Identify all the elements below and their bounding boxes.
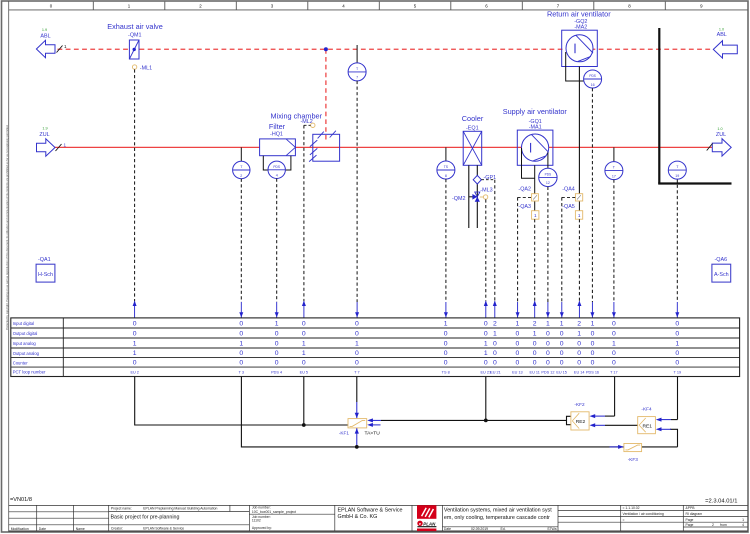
svg-text:PDS: PDS [589, 74, 596, 78]
svg-text:T 7: T 7 [354, 370, 359, 374]
wire T17 to RE2 upper [590, 377, 615, 419]
svg-text:1: 1 [64, 44, 67, 49]
svg-text:Job number:: Job number: [252, 506, 271, 510]
svg-text:0: 0 [50, 3, 53, 8]
title block plant description [444, 508, 552, 521]
svg-text:0: 0 [560, 350, 564, 357]
svg-text:0: 0 [612, 360, 616, 367]
svg-text:0: 0 [493, 340, 497, 347]
svg-text:0: 0 [516, 350, 520, 357]
contact QA5 [562, 204, 582, 219]
svg-text:7: 7 [557, 3, 560, 8]
svg-text:0: 0 [239, 360, 243, 367]
measuring line QA3 (EU 11) [533, 219, 537, 317]
table values column PDS 4 [275, 320, 279, 366]
wire RE1 lower to bottom run [656, 427, 678, 447]
title block company [338, 507, 403, 519]
svg-text:1: 1 [128, 3, 131, 8]
fan GQ2 MA2 return air ventilator [547, 10, 611, 67]
svg-text:0: 0 [355, 360, 359, 367]
svg-text:TS 8: TS 8 [442, 370, 450, 374]
svg-text:EU 13: EU 13 [512, 370, 523, 374]
wire supply air duct (red) [55, 146, 712, 148]
svg-text:4: 4 [276, 174, 278, 178]
node junction EU21/RE2 wire [484, 419, 488, 423]
pump GP1 [473, 175, 496, 184]
table values column PDS 16 [591, 320, 595, 366]
svg-text:0: 0 [302, 330, 306, 337]
svg-text:-QA5: -QA5 [562, 204, 575, 210]
svg-text:2: 2 [712, 523, 714, 527]
svg-text:1: 1 [675, 340, 679, 347]
table values column PDS 12 [546, 320, 550, 366]
svg-text:ABL: ABL [40, 34, 50, 40]
svg-text:EU 21: EU 21 [490, 370, 501, 374]
wire RE1 to RE2 lower [590, 423, 638, 427]
fan GQ1 MA1 supply air ventilator [503, 107, 568, 165]
svg-text:0: 0 [675, 360, 679, 367]
svg-text:STWa: STWa [547, 527, 556, 531]
svg-text:0: 0 [516, 340, 520, 347]
svg-text:T 3: T 3 [239, 370, 244, 374]
svg-text:1: 1 [275, 320, 279, 327]
wire KF1 bottom stub [355, 428, 359, 447]
svg-text:1: 1 [133, 340, 137, 347]
svg-text:1: 1 [302, 350, 306, 357]
svg-text:TA>TU: TA>TU [365, 431, 381, 437]
actuator port ML1 [132, 65, 152, 72]
svg-text:0: 0 [275, 340, 279, 347]
svg-text:EU 5: EU 5 [300, 370, 308, 374]
svg-text:0: 0 [533, 350, 537, 357]
svg-text:-MA1: -MA1 [529, 124, 542, 130]
sensor PDS16 [584, 70, 602, 88]
pipe cooler flow [468, 165, 470, 228]
wire bus EU5 drop [303, 377, 305, 426]
svg-text:EPLAN Software & Service: EPLAN Software & Service [338, 507, 403, 513]
svg-text:0: 0 [675, 350, 679, 357]
svg-text:7: 7 [356, 76, 358, 80]
wire bus EU21 drop [485, 377, 487, 421]
svg-text:0: 0 [533, 340, 537, 347]
sensor T2 [233, 147, 250, 178]
measuring line TS8 (TS 8) [444, 179, 448, 318]
svg-text:0: 0 [493, 350, 497, 357]
table row labels [13, 321, 46, 374]
svg-text:1: 1 [560, 320, 564, 327]
measuring line QA5 (EU 14) [577, 219, 581, 317]
logic element KF1 TA>TU [339, 419, 380, 437]
svg-text:EU 2: EU 2 [130, 370, 138, 374]
svg-text:-KF2: -KF2 [574, 402, 585, 407]
svg-text:&PPB: &PPB [686, 506, 696, 510]
svg-text:EU 11: EU 11 [530, 370, 540, 374]
svg-text:-QM2: -QM2 [452, 196, 465, 202]
svg-text:0: 0 [444, 330, 448, 337]
svg-text:0: 0 [516, 360, 520, 367]
svg-text:0: 0 [444, 340, 448, 347]
PCT signal table [11, 318, 740, 377]
switch QA6 auto [712, 257, 731, 282]
wire KF1 to RE2 [367, 418, 566, 422]
svg-text:PCT loop number: PCT loop number [13, 370, 46, 375]
svg-text:0: 0 [484, 360, 488, 367]
svg-text:=VN01/8: =VN01/8 [10, 497, 32, 503]
filter HQ1 [260, 122, 296, 156]
frame column numbers [50, 3, 703, 8]
svg-text:0: 0 [533, 360, 537, 367]
svg-text:Name: Name [76, 527, 85, 531]
svg-text:Ed.: Ed. [501, 527, 506, 531]
wire KF1 lower input stub [367, 423, 380, 427]
svg-text:1: 1 [577, 330, 581, 337]
svg-text:1.9: 1.9 [42, 28, 47, 32]
svg-text:0: 0 [275, 330, 279, 337]
table values column EU 2 [133, 320, 137, 366]
measuring line T7 (T 7) [355, 81, 359, 318]
svg-text:1: 1 [302, 340, 306, 347]
svg-text:1: 1 [546, 320, 550, 327]
svg-text:PDS: PDS [273, 165, 280, 169]
sensor T17 [605, 147, 623, 179]
svg-text:2: 2 [240, 174, 242, 178]
svg-text:Date: Date [39, 527, 46, 531]
duct line fresh air (thick) [658, 28, 731, 184]
node junction EU5/KF1 wire [302, 423, 306, 427]
table values column T 3 [239, 320, 243, 366]
svg-text:0: 0 [275, 350, 279, 357]
svg-text:Creator:: Creator: [111, 527, 123, 531]
svg-text:-ML1: -ML1 [140, 66, 152, 72]
measuring line T2 (T 3) [239, 179, 243, 318]
svg-text:8: 8 [628, 3, 631, 8]
svg-text:Ventilation systems, mixed air: Ventilation systems, mixed air ventilati… [444, 508, 552, 514]
svg-text:0: 0 [591, 330, 595, 337]
svg-text:Mixing chamber: Mixing chamber [271, 112, 323, 121]
svg-text:4: 4 [342, 3, 345, 8]
svg-text:Output digital: Output digital [13, 331, 38, 336]
svg-text:1: 1 [355, 340, 359, 347]
svg-text:0: 0 [133, 360, 137, 367]
svg-text:from: from [720, 523, 727, 527]
svg-text:0: 0 [560, 340, 564, 347]
svg-text:0: 0 [577, 340, 581, 347]
switch QA1 manual [36, 257, 55, 282]
svg-text:4: 4 [742, 523, 744, 527]
svg-text:1: 1 [591, 320, 595, 327]
measuring line T17 (T 17) [612, 180, 616, 318]
svg-text:-QA3: -QA3 [518, 204, 531, 210]
svg-text:0: 0 [355, 350, 359, 357]
svg-text:1: 1 [444, 320, 448, 327]
svg-text:0: 0 [612, 330, 616, 337]
svg-text:0: 0 [577, 360, 581, 367]
svg-text:0: 0 [239, 330, 243, 337]
svg-text:0: 0 [133, 320, 137, 327]
table values column EU 5 [302, 320, 306, 366]
title block frame [9, 505, 748, 531]
table values column T 7 [355, 320, 359, 366]
measuring line PDS16 (PDS 16) [590, 88, 594, 317]
svg-text:12: 12 [546, 181, 550, 185]
svg-text:-KF3: -KF3 [628, 457, 639, 462]
measuring line ML1 (EU 2) [133, 69, 137, 317]
svg-text:em, only cooling, temperature: em, only cooling, temperature cascade co… [444, 515, 550, 521]
measuring line PDS4 (PDS 4) [275, 179, 279, 318]
measuring line PDS12 (PDS 12) [546, 187, 550, 318]
svg-text:-EQ1: -EQ1 [466, 126, 479, 132]
svg-text:0: 0 [239, 320, 243, 327]
controller KF4 RE1 [638, 407, 656, 434]
svg-text:PDS 16: PDS 16 [586, 370, 599, 374]
wire bus EU2 to KF1 [135, 377, 348, 426]
measuring line QA2 (EU 13) [516, 197, 532, 317]
cooler EQ1 [462, 114, 484, 165]
svg-text:Input analog: Input analog [13, 341, 37, 346]
sensor PDS4 (filter differential pressure) [263, 156, 291, 179]
EPLAN logo [417, 505, 436, 531]
svg-text:H-Sch: H-Sch [38, 272, 53, 278]
svg-text:0: 0 [302, 320, 306, 327]
svg-text:0: 0 [612, 320, 616, 327]
svg-text:0: 0 [516, 330, 520, 337]
svg-text:Basic project for pre-planning: Basic project for pre-planning [111, 514, 180, 520]
svg-text:1: 1 [612, 340, 616, 347]
svg-text:0: 0 [444, 360, 448, 367]
duct arrow ABL left [36, 28, 67, 58]
contact QA2 [518, 187, 538, 202]
table values column TS 8 [444, 320, 448, 366]
duct arrow ZUL right [707, 127, 732, 156]
wire T7 to KF1 top [355, 377, 359, 419]
svg-text:9: 9 [700, 3, 703, 8]
actuator port ML3 [480, 188, 493, 200]
valve QM1 exhaust air valve [107, 22, 163, 59]
svg-text:ABL: ABL [717, 32, 727, 38]
svg-text:=2.3.04.01/1: =2.3.04.01/1 [705, 499, 737, 505]
contact QA4 [562, 187, 582, 202]
svg-text:1: 1 [578, 213, 581, 218]
svg-text:2: 2 [533, 320, 537, 327]
svg-text:Supply air ventilator: Supply air ventilator [503, 107, 568, 116]
wire bus T3 to bottom run [241, 377, 677, 447]
wire fan GQ2 motor [566, 52, 584, 211]
svg-text:10C_box001_sample_project: 10C_box001_sample_project [252, 510, 296, 514]
svg-text:Approved by:: Approved by: [252, 526, 272, 530]
svg-text:Input digital: Input digital [13, 321, 34, 326]
svg-text:Counter: Counter [13, 360, 29, 365]
svg-text:1.9: 1.9 [42, 127, 47, 131]
svg-text:1: 1 [516, 320, 520, 327]
svg-text:Project name:: Project name: [111, 506, 132, 510]
svg-text:-QA1: -QA1 [38, 257, 51, 263]
svg-text:-QA4: -QA4 [562, 187, 575, 193]
svg-text:PDS 12: PDS 12 [541, 370, 554, 374]
svg-text:17: 17 [612, 174, 616, 178]
svg-text:0: 0 [675, 330, 679, 337]
svg-text:1: 1 [534, 213, 537, 218]
svg-text:0: 0 [493, 360, 497, 367]
node junction KF1 bottom [355, 445, 359, 449]
svg-text:16: 16 [591, 83, 595, 87]
controller KF2 RE2 [567, 402, 590, 430]
PCT loop number labels [130, 370, 681, 374]
svg-text:Cooler: Cooler [462, 114, 484, 123]
valve QM2 (3-way) [452, 192, 480, 202]
svg-text:0: 0 [612, 350, 616, 357]
svg-text:PDS: PDS [545, 172, 552, 176]
svg-text:-ML3: -ML3 [480, 188, 492, 194]
svg-text:T 17: T 17 [610, 370, 618, 374]
table values column EU 13 [516, 320, 520, 366]
svg-text:1.0: 1.0 [717, 127, 722, 131]
svg-text:0: 0 [591, 360, 595, 367]
svg-text:Return air ventilator: Return air ventilator [547, 10, 611, 19]
svg-text:0: 0 [675, 320, 679, 327]
svg-text:0: 0 [591, 340, 595, 347]
svg-text:0: 0 [133, 330, 137, 337]
wire T19 to RE1 upper [656, 377, 678, 422]
wire recirculation duct (red dashed vertical) [325, 49, 327, 139]
svg-text:1: 1 [533, 330, 537, 337]
svg-text:GmbH & Co. KG: GmbH & Co. KG [338, 514, 378, 520]
table values column EU 11 [533, 320, 537, 366]
svg-text:Output analog: Output analog [13, 351, 40, 356]
svg-text:2: 2 [493, 320, 497, 327]
table values column EU 21 b [493, 320, 497, 366]
svg-text:0: 0 [444, 350, 448, 357]
svg-text:1: 1 [133, 350, 137, 357]
title block date row [444, 527, 557, 531]
svg-text:Protected by copyright. Passin: Protected by copyright. Passing on as we… [5, 124, 9, 330]
svg-text:-KF4: -KF4 [641, 407, 652, 412]
svg-text:-KF1: -KF1 [339, 431, 350, 436]
mixing chamber ML2 [271, 112, 340, 162]
svg-text:2: 2 [577, 320, 581, 327]
svg-text:0: 0 [560, 360, 564, 367]
svg-text:PLAN: PLAN [423, 522, 436, 527]
svg-text:0: 0 [546, 330, 550, 337]
svg-text:RE1: RE1 [642, 424, 652, 430]
svg-text:Filter: Filter [269, 122, 286, 131]
node junction exhaust/recirculation [324, 47, 328, 51]
svg-text:1: 1 [239, 340, 243, 347]
sensor PDS12 [539, 168, 557, 186]
logic element KF3 [610, 444, 642, 463]
svg-text:0: 0 [275, 360, 279, 367]
svg-text:-QA2: -QA2 [518, 187, 531, 193]
svg-text:EU 15: EU 15 [556, 370, 567, 374]
svg-text:PDS 4: PDS 4 [271, 370, 282, 374]
svg-text:5: 5 [414, 3, 417, 8]
svg-text:02.09.2019: 02.09.2019 [471, 527, 488, 531]
svg-text:1: 1 [742, 518, 744, 522]
svg-text:=: = [623, 518, 625, 522]
table values column EU 21 a [484, 320, 488, 366]
svg-text:Page: Page [686, 523, 694, 527]
actuator port ML2 [311, 123, 315, 127]
svg-text:EPLAN Preplanning Manual: Buil: EPLAN Preplanning Manual: Building Autom… [143, 506, 217, 510]
svg-text:-GP1: -GP1 [484, 175, 497, 181]
svg-text:Exhaust air valve: Exhaust air valve [107, 22, 163, 31]
svg-text:8: 8 [445, 174, 447, 178]
wire exhaust air duct (red dashed) [58, 48, 714, 50]
svg-text:1: 1 [64, 142, 67, 147]
svg-text:T 19: T 19 [674, 370, 682, 374]
svg-text:3: 3 [271, 3, 274, 8]
svg-text:RI diagram: RI diagram [686, 512, 703, 516]
svg-text:0: 0 [546, 340, 550, 347]
svg-text:0: 0 [484, 330, 488, 337]
title block texts left [11, 506, 296, 532]
svg-text:EU 14: EU 14 [574, 370, 585, 374]
svg-text:0: 0 [546, 350, 550, 357]
sensor T7 (return air temperature) [348, 45, 366, 81]
svg-text:-QA6: -QA6 [715, 257, 728, 263]
svg-text:-MA2: -MA2 [574, 24, 587, 30]
measuring line ML3 (EU 21) [484, 199, 488, 317]
svg-text:2: 2 [199, 3, 202, 8]
svg-text:0: 0 [560, 330, 564, 337]
table values column T 19 [675, 320, 679, 366]
svg-text:Ventilation / air conditioning: Ventilation / air conditioning [623, 512, 664, 516]
svg-text:0: 0 [577, 350, 581, 357]
svg-text:-QM1: -QM1 [128, 33, 141, 39]
wire fan GQ1 motor [522, 148, 548, 211]
measuring line GP1 (EU 21) [481, 180, 496, 318]
svg-text:0: 0 [546, 360, 550, 367]
svg-text:19: 19 [675, 174, 679, 178]
svg-text:0: 0 [355, 330, 359, 337]
svg-text:0: 0 [302, 360, 306, 367]
sensor TS8 [437, 147, 455, 179]
svg-text:0: 0 [484, 320, 488, 327]
svg-text:TS: TS [444, 165, 449, 169]
svg-text:0: 0 [591, 350, 595, 357]
svg-text:1.0: 1.0 [719, 28, 724, 32]
svg-text:6: 6 [485, 3, 488, 8]
pipe cooler return [476, 165, 478, 228]
sensor T19 [668, 161, 686, 183]
svg-text:ZUL: ZUL [39, 132, 49, 138]
svg-text:1: 1 [484, 340, 488, 347]
svg-text:RE2: RE2 [576, 419, 586, 425]
svg-text:Date: Date [444, 527, 451, 531]
duct arrow ZUL left [37, 127, 67, 157]
svg-text:ZUL: ZUL [716, 132, 726, 138]
measuring line T19 (T 19) [675, 185, 679, 318]
measuring line ML2 (EU 5) [302, 125, 311, 317]
svg-text:EPLAN Software & Service: EPLAN Software & Service [143, 527, 184, 531]
svg-text:0: 0 [239, 350, 243, 357]
table values column EU 15 [560, 320, 564, 366]
svg-text:11102: 11102 [252, 519, 261, 523]
contact QA3 [518, 204, 538, 219]
svg-text:1: 1 [493, 330, 497, 337]
title block right cells [623, 506, 745, 527]
svg-text:1: 1 [484, 350, 488, 357]
table values column EU 14 [577, 320, 581, 366]
measuring line QA4 (EU 15) [560, 197, 576, 317]
svg-text:Page: Page [686, 518, 694, 522]
duct arrow ABL right [713, 28, 737, 58]
table values column T 17 [612, 320, 616, 366]
svg-text:Modification: Modification [11, 527, 29, 531]
svg-text:= 1.1.10.02: = 1.1.10.02 [623, 506, 640, 510]
svg-text:A-Sch: A-Sch [714, 272, 729, 278]
svg-text:-HQ1: -HQ1 [270, 132, 283, 138]
svg-text:0: 0 [355, 320, 359, 327]
